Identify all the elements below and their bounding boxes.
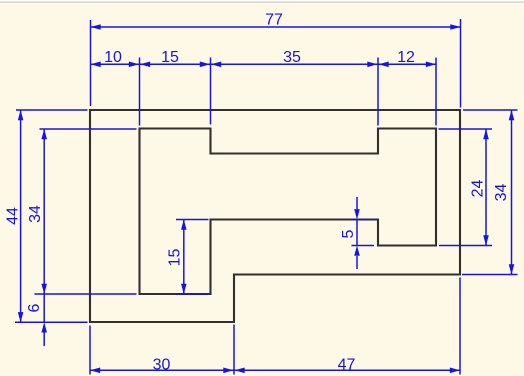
bottom extension x=234	[233, 325, 235, 375]
part inner cavity outline	[140, 129, 437, 295]
dimension 44 extension bottom (y=322.3)	[15, 321, 88, 323]
dimension 35 arrows	[211, 62, 221, 68]
dimension 77 extension line right (x=460.5)	[460, 19, 462, 108]
dimension 12 arrows	[379, 62, 389, 68]
extension line x=378	[377, 58, 379, 126]
dimension 34 right extension top (y=110)	[463, 109, 518, 111]
extension line x=436	[435, 58, 437, 126]
dimension 5 extension top (y=219.5)	[352, 219, 377, 221]
svg-text:6: 6	[26, 303, 43, 312]
dimension 5 extension bottom (y=245.5)	[352, 245, 375, 247]
dimension 5 upper tail+outside arrow	[356, 197, 358, 210]
part outer outline	[90, 110, 460, 322]
svg-text:35: 35	[283, 49, 301, 66]
bottom extension x=90	[89, 326, 91, 375]
dimension 44 extension top (y=110)	[16, 109, 88, 111]
dimension row 10/15/35/12 dim line	[91, 63, 437, 65]
svg-text:77: 77	[265, 11, 283, 28]
dimension 34 left dim line	[43, 129, 45, 294]
dimension 34 right extension bottom (y=274.5)	[462, 274, 518, 276]
dimension 24 extension bottom (y=245.5)	[439, 245, 492, 247]
dimension 5 dim line	[356, 220, 358, 246]
svg-text:34: 34	[27, 205, 44, 223]
svg-text:10: 10	[104, 49, 122, 66]
dimension 10 arrows	[91, 62, 101, 68]
dimension 44 dim line	[20, 110, 22, 322]
dimension 15v extension bottom (y=294)	[176, 293, 209, 295]
svg-text:12: 12	[397, 49, 415, 66]
dimension 34 left extension top (y=129)	[40, 128, 137, 130]
dimension 6 lower outside arrow and tail	[41, 322, 47, 332]
dimension 24 dim line	[485, 129, 487, 246]
bottom extension x=460	[459, 278, 461, 375]
svg-text:15: 15	[166, 249, 183, 267]
dimension 47 arrows	[235, 368, 245, 374]
svg-text:34: 34	[493, 184, 510, 202]
svg-text:15: 15	[161, 49, 179, 66]
dimension 77 extension line left (x=90.5)	[90, 20, 92, 106]
top window border	[0, 0, 524, 2]
dimension 15v dim line	[183, 220, 185, 295]
svg-text:24: 24	[470, 180, 487, 198]
svg-text:30: 30	[153, 356, 171, 373]
dimension 34 right dim line	[511, 110, 513, 275]
dimension 15 arrows	[140, 62, 150, 68]
dimension 5 lower outside arrow + tail	[354, 246, 360, 256]
dimension 30 arrows	[90, 368, 100, 374]
dimension 24 extension top (y=129)	[439, 128, 493, 130]
dimension 6 dim line between arrows	[43, 294, 45, 322]
svg-text:44: 44	[5, 207, 22, 225]
dimension 30/47 dim line	[90, 369, 460, 371]
svg-text:5: 5	[340, 229, 357, 238]
extension line x=210.5	[210, 58, 212, 125]
dimension 77 dim line	[91, 26, 461, 28]
dimension 34 left extension bottom (y=294)	[35, 293, 137, 295]
svg-text:47: 47	[338, 356, 356, 373]
dimension 15v extension top (y=220)	[176, 219, 209, 221]
extension line x=139.5	[139, 58, 141, 126]
